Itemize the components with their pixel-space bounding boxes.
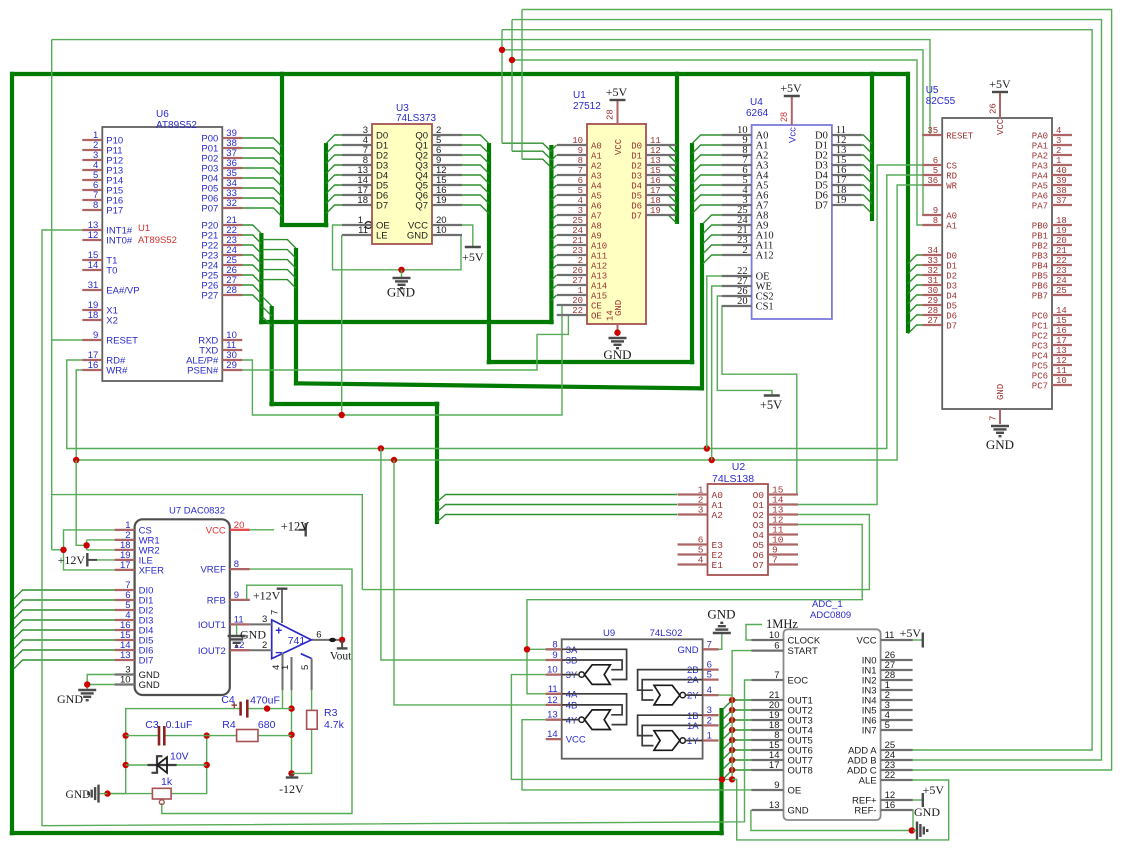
svg-text:13: 13 bbox=[650, 156, 661, 166]
wire to U6 RESET pin bbox=[52, 339, 83, 341]
wire DI4 bus entry bbox=[14, 630, 115, 639]
svg-text:14: 14 bbox=[1056, 306, 1067, 316]
svg-text:1: 1 bbox=[578, 286, 583, 296]
nor gate 1 bbox=[654, 731, 680, 751]
U1 pin 5 A5 bbox=[557, 194, 587, 196]
U4 pin 25 A8 bbox=[722, 214, 752, 216]
U3 OE/GND ground loop bbox=[333, 225, 463, 270]
data bus: U5 D drop x=908 bbox=[906, 72, 910, 333]
op-amp pins 4 1 5 stubs down bbox=[282, 653, 284, 691]
U7 pin 7 DI0 bbox=[115, 589, 135, 591]
svg-text:10V: 10V bbox=[170, 751, 189, 763]
+5V symbol U4 bbox=[784, 95, 800, 97]
Vout terminal bbox=[341, 640, 343, 649]
svg-text:24: 24 bbox=[1056, 276, 1067, 286]
svg-text:Q7: Q7 bbox=[415, 201, 428, 212]
wire Q7 bus entry bbox=[462, 205, 489, 214]
address bus A8-A12: slanted horizontal bbox=[294, 383, 704, 388]
U3 pin 15 Q5 bbox=[432, 184, 462, 186]
svg-text:13: 13 bbox=[547, 710, 558, 721]
wire P25 bus entry bbox=[242, 275, 261, 284]
U1 pin 7 A3 bbox=[557, 174, 587, 176]
U9 pin 11 4A bbox=[546, 693, 562, 695]
U3 pin 7 D2 bbox=[342, 154, 372, 156]
+12V symbol op-amp pin7 bbox=[277, 588, 288, 590]
U4 pin 7 A3 bbox=[722, 164, 752, 166]
U5 pin 5 RD bbox=[922, 174, 942, 176]
svg-text:A9: A9 bbox=[591, 232, 602, 242]
svg-text:PB0: PB0 bbox=[1032, 222, 1048, 232]
svg-text:74LS373: 74LS373 bbox=[396, 113, 436, 124]
WR#/rail2 y=460 bbox=[76, 185, 922, 460]
ADC1 pin 14 OUT7 bbox=[752, 759, 784, 761]
svg-text:6: 6 bbox=[316, 630, 321, 641]
svg-text:14: 14 bbox=[547, 729, 558, 740]
svg-text:OE: OE bbox=[788, 786, 802, 797]
svg-text:4B: 4B bbox=[566, 701, 578, 712]
svg-text:D3: D3 bbox=[946, 282, 957, 292]
svg-text:17: 17 bbox=[769, 760, 780, 771]
U6 pin 3 P12 bbox=[82, 159, 102, 161]
wire R4 right bbox=[258, 735, 292, 737]
junction OUT1 bbox=[729, 697, 735, 703]
junction U1 ground bbox=[614, 329, 620, 335]
svg-text:PA7: PA7 bbox=[1032, 202, 1048, 212]
U4 OE wire down to rail1 bbox=[707, 276, 722, 449]
wire A2 jog to bus bbox=[522, 159, 551, 168]
ADC REF+ to +5V bbox=[911, 799, 923, 801]
ADC1 pin 8 OUT5 bbox=[752, 739, 784, 741]
U1 pin 16 D4 bbox=[646, 184, 676, 186]
U7 pin 8 VREF bbox=[230, 568, 250, 570]
svg-text:+5V: +5V bbox=[462, 250, 484, 264]
svg-text:RFB: RFB bbox=[207, 596, 226, 607]
svg-text:R4: R4 bbox=[222, 719, 236, 731]
wire rail2 to U9 4B bbox=[394, 460, 546, 705]
svg-text:74LS138: 74LS138 bbox=[712, 473, 754, 485]
svg-text:GND: GND bbox=[986, 437, 1014, 452]
wire OUT1 bus entry bbox=[724, 700, 752, 709]
wire Q1 bus entry bbox=[462, 145, 489, 154]
address bus A0-A2: horizontal y=404 bbox=[269, 402, 439, 406]
svg-text:31: 31 bbox=[927, 276, 938, 286]
wire U1 A7 bus entry bbox=[551, 215, 556, 220]
wire rail1 to U9 3B bbox=[381, 449, 546, 661]
junction DAC GND bbox=[84, 681, 90, 687]
wire DI1 bus entry bbox=[14, 600, 115, 609]
U4 pin 4 A6 bbox=[722, 194, 752, 196]
ground symbol U1 bbox=[609, 338, 627, 348]
U6 pin 26 P25 bbox=[222, 274, 242, 276]
3Y to START/ALE bbox=[511, 675, 732, 780]
svg-text:A4: A4 bbox=[591, 182, 602, 192]
svg-text:8: 8 bbox=[933, 216, 938, 226]
svg-text:A12: A12 bbox=[591, 262, 607, 272]
svg-text:IN7: IN7 bbox=[862, 726, 877, 737]
address bus A8-A15: U1 riser x=551.4 bbox=[549, 145, 553, 324]
U3 pin 11 LE bbox=[342, 234, 372, 236]
wire U4 A12 bus entry bbox=[703, 255, 722, 264]
wire OUT2 bus entry bbox=[724, 710, 752, 719]
U4 pin 5 A5 bbox=[722, 184, 752, 186]
U5 pin 4 PA0 bbox=[1052, 134, 1072, 136]
U6 pin 36 P03 bbox=[222, 167, 242, 169]
wire U4 A9 bus entry bbox=[703, 225, 722, 234]
U9 pin 1 1Y bbox=[703, 739, 719, 741]
ADC1 pin 3 IN5 bbox=[881, 709, 913, 711]
wire U5 D0 bus entry bbox=[908, 255, 922, 264]
U5 pin 32 D2 bbox=[922, 274, 942, 276]
U1 pin 11 D0 bbox=[646, 144, 676, 146]
svg-text:GND: GND bbox=[139, 680, 160, 691]
wire U1 A8 bus entry bbox=[551, 225, 556, 230]
U4 WE wire down to rail2 bbox=[712, 286, 722, 460]
svg-text:4: 4 bbox=[578, 196, 583, 206]
U6 pin 13 INT1# bbox=[82, 229, 102, 231]
U6 pin 19 X1 bbox=[82, 309, 102, 311]
junction C4/pin1 bbox=[288, 705, 294, 711]
ADC CLOCK to 1MHz stub bbox=[746, 625, 762, 641]
wire U1 D1 bus entry bbox=[668, 155, 677, 164]
U5 pin 25 PB7 bbox=[1052, 294, 1072, 296]
+12V symbol DAC ILE bbox=[86, 553, 88, 567]
svg-text:GND: GND bbox=[707, 607, 735, 622]
address bus A8-A15: P2 drop x=261.4 bbox=[259, 233, 263, 324]
wire DI5 bus entry bbox=[14, 640, 115, 649]
wire U1 A5 bus entry bbox=[551, 195, 556, 200]
U6 pin 18 X2 bbox=[82, 319, 102, 321]
svg-text:GND: GND bbox=[996, 384, 1006, 400]
U3 pin 8 D3 bbox=[342, 164, 372, 166]
U6 pin 28 P27 bbox=[222, 294, 242, 296]
ground bbox=[88, 785, 98, 803]
svg-text:13: 13 bbox=[1056, 346, 1067, 356]
svg-text:22: 22 bbox=[885, 770, 896, 781]
svg-text:-12V: -12V bbox=[279, 782, 304, 796]
svg-text:3: 3 bbox=[698, 505, 704, 516]
wire D4 U3 bus exit bbox=[326, 175, 342, 184]
svg-text:INT0#: INT0# bbox=[106, 236, 133, 247]
U5 pin 31 D3 bbox=[922, 284, 942, 286]
wire U4 D6 bus entry bbox=[862, 195, 872, 204]
svg-text:11: 11 bbox=[234, 614, 244, 625]
wire DI3 bus entry bbox=[14, 620, 115, 629]
ADC1 pin 11 VCC bbox=[881, 639, 913, 641]
svg-text:E1: E1 bbox=[712, 560, 724, 571]
svg-text:19: 19 bbox=[836, 195, 847, 206]
svg-text:A12: A12 bbox=[756, 251, 774, 262]
U1 pin 15 D3 bbox=[646, 174, 676, 176]
svg-text:PC0: PC0 bbox=[1032, 312, 1048, 322]
svg-text:5: 5 bbox=[578, 186, 583, 196]
U1 pin 17 D5 bbox=[646, 194, 676, 196]
U5 pin 17 PC3 bbox=[1052, 344, 1072, 346]
junction R4 left bbox=[204, 732, 210, 738]
op-amp U8 741 bbox=[272, 620, 312, 659]
op-amp pin3 wire from IOUT1 bbox=[250, 623, 272, 625]
svg-text:A11: A11 bbox=[591, 252, 607, 262]
ADC1 pin 23 ADD C bbox=[881, 769, 913, 771]
IC U5 body bbox=[942, 118, 1052, 409]
svg-text:LE: LE bbox=[376, 231, 388, 242]
wire op-amp pin6 bbox=[311, 639, 342, 641]
svg-text:CS: CS bbox=[946, 162, 957, 172]
wire OUT7 bus entry bbox=[724, 760, 752, 769]
svg-text:35: 35 bbox=[927, 126, 938, 136]
wire U4 D2 bus entry bbox=[862, 155, 872, 164]
U5 pin 24 PB6 bbox=[1052, 284, 1072, 286]
svg-text:4: 4 bbox=[707, 685, 712, 696]
junction rail1 to U4 OE bbox=[704, 445, 710, 451]
svg-text:16: 16 bbox=[1056, 326, 1067, 336]
svg-text:D7: D7 bbox=[631, 212, 642, 222]
wire 4Y out bbox=[562, 719, 579, 721]
svg-text:36: 36 bbox=[927, 176, 938, 186]
ADC GND pin13 to ground wire bbox=[751, 810, 913, 831]
wire pin4 down bbox=[282, 690, 284, 708]
junction OUT8 bbox=[729, 767, 735, 773]
wire U4 A6 bus entry bbox=[692, 195, 722, 204]
svg-text:GND: GND bbox=[240, 628, 266, 642]
C4 right wire bbox=[247, 708, 291, 710]
U6 pin 8 P17 bbox=[82, 209, 102, 211]
svg-text:PB2: PB2 bbox=[1032, 242, 1048, 252]
wire to gnd symbol bbox=[913, 830, 917, 832]
2Y wire to START column bbox=[719, 694, 733, 696]
svg-text:START: START bbox=[788, 646, 818, 657]
svg-text:10: 10 bbox=[120, 675, 131, 686]
svg-text:8: 8 bbox=[93, 200, 98, 211]
junction rail2 to U4 WE bbox=[709, 457, 715, 463]
svg-text:CLOCK: CLOCK bbox=[788, 636, 821, 647]
wire to 3A bbox=[527, 648, 546, 650]
IC ADC1 body bbox=[784, 629, 881, 820]
svg-text:5: 5 bbox=[933, 166, 938, 176]
svg-text:3Y: 3Y bbox=[566, 670, 578, 681]
svg-text:0.1uF: 0.1uF bbox=[166, 719, 193, 731]
wire U1 A3 bus entry bbox=[551, 175, 556, 180]
junction A1 fan bbox=[509, 57, 515, 63]
data bus: bottom horizontal bbox=[10, 831, 724, 835]
svg-text:R3: R3 bbox=[324, 707, 338, 719]
U5 pin 3 PA1 bbox=[1052, 144, 1072, 146]
svg-text:7: 7 bbox=[707, 639, 712, 650]
svg-text:+5V: +5V bbox=[760, 398, 782, 412]
svg-text:EOC: EOC bbox=[788, 676, 809, 687]
ADC1 pin 6 START bbox=[752, 649, 784, 651]
U3 pin 16 Q6 bbox=[432, 194, 462, 196]
ground symbol U5 bbox=[991, 426, 1009, 436]
address bus A0-A7: U4 riser x=692 bbox=[690, 143, 694, 364]
svg-text:7: 7 bbox=[989, 416, 999, 421]
U2 O2 wire to 3B chain bbox=[362, 515, 869, 590]
svg-text:D7: D7 bbox=[946, 322, 957, 332]
U1 pin 25 A8 bbox=[557, 224, 587, 226]
wire to WR1 bbox=[87, 539, 115, 541]
capacitor C4 470uF bbox=[239, 702, 242, 716]
U3 pin 19 Q7 bbox=[432, 204, 462, 206]
address bus A8-A15: horizontal y=322 bbox=[259, 320, 554, 324]
svg-text:28: 28 bbox=[927, 306, 938, 316]
wire 2A loop bbox=[642, 680, 702, 700]
svg-text:4.7k: 4.7k bbox=[324, 719, 345, 731]
U9 pin 12 4B bbox=[546, 704, 562, 706]
svg-text:8: 8 bbox=[234, 559, 239, 570]
wire op-amp pin5 lead bbox=[301, 654, 312, 659]
svg-text:10: 10 bbox=[769, 630, 780, 641]
U5 pin 36 WR bbox=[922, 184, 942, 186]
wire U1 D2 bus entry bbox=[668, 165, 677, 174]
ADC1 pin 27 IN1 bbox=[881, 669, 913, 671]
address bus A0-A7: U3 Q drop x=489 bbox=[487, 143, 491, 364]
U4 pin 3 A7 bbox=[722, 204, 752, 206]
svg-text:17: 17 bbox=[650, 186, 661, 196]
wire U1 A10 bus entry bbox=[551, 245, 556, 250]
ADC1 pin 20 OUT2 bbox=[752, 709, 784, 711]
svg-text:D0: D0 bbox=[946, 252, 957, 262]
nor gate 4 bbox=[585, 710, 611, 730]
svg-text:2: 2 bbox=[1056, 146, 1061, 156]
+5V symbol near U4 CS2 bbox=[764, 394, 780, 396]
fan line A0 to U5 A0 bbox=[502, 50, 923, 215]
svg-text:40: 40 bbox=[1056, 166, 1067, 176]
svg-text:37: 37 bbox=[1056, 196, 1067, 206]
U3 pin 13 D4 bbox=[342, 174, 372, 176]
ADC1 pin 25 ADD A bbox=[881, 749, 913, 751]
wire jog A11 to U4 bus bbox=[261, 270, 296, 279]
U1 pin 10 A0 bbox=[557, 144, 587, 146]
junction diode left bbox=[123, 762, 129, 768]
svg-text:16: 16 bbox=[88, 360, 99, 371]
svg-text:16: 16 bbox=[885, 800, 896, 811]
svg-text:D5: D5 bbox=[946, 302, 957, 312]
op-amp pin2 wire from IOUT2 bbox=[250, 649, 272, 651]
wire jog A1 to U2 bus bbox=[261, 307, 271, 316]
resistor R3 4.7k bbox=[307, 710, 318, 729]
svg-text:12: 12 bbox=[547, 695, 558, 706]
wire U4 A8 bus entry bbox=[703, 215, 722, 224]
nor gate 3 bbox=[585, 665, 611, 685]
U1 pin 13 D2 bbox=[646, 164, 676, 166]
DAC VREF wire to wiper bbox=[162, 569, 352, 813]
U1 pin 27 A14 bbox=[557, 284, 587, 286]
U1 pin 1 A15 bbox=[557, 294, 587, 296]
wire to pot right bbox=[171, 765, 207, 794]
ADC1 pin 17 OUT8 bbox=[752, 769, 784, 771]
top fan: A1 line wrap to ADC ADD B bbox=[512, 20, 1102, 760]
wire WR1-WR2 tie bbox=[86, 540, 88, 550]
IC U9 body bbox=[562, 639, 703, 758]
junction rail1 to U9 3B bbox=[378, 445, 384, 451]
svg-text:PC7: PC7 bbox=[1032, 382, 1048, 392]
U5 GND pin 7 bottom bbox=[999, 409, 1001, 424]
U5 pin 15 PC1 bbox=[1052, 324, 1072, 326]
svg-text:28: 28 bbox=[779, 112, 789, 122]
U2 pin 5 E2 bbox=[678, 553, 708, 555]
svg-text:12: 12 bbox=[650, 146, 661, 156]
svg-text:5: 5 bbox=[707, 670, 712, 681]
U6 pin 29 PSEN# bbox=[222, 369, 242, 371]
U6 pin 2 P11 bbox=[82, 149, 102, 151]
svg-text:23: 23 bbox=[572, 246, 583, 256]
junction OUT6 bbox=[729, 747, 735, 753]
U4 pin 2 A12 bbox=[722, 254, 752, 256]
svg-text:U7 DAC0832: U7 DAC0832 bbox=[169, 506, 225, 517]
svg-text:22: 22 bbox=[1056, 256, 1067, 266]
wire U1 A6 bus entry bbox=[551, 205, 556, 210]
svg-text:13: 13 bbox=[120, 650, 131, 661]
svg-text:ADC_1: ADC_1 bbox=[812, 599, 843, 610]
ADC1 pin 24 ADD B bbox=[881, 759, 913, 761]
U4 pin 21 A10 bbox=[722, 234, 752, 236]
svg-text:1MHz: 1MHz bbox=[766, 617, 798, 631]
svg-text:11: 11 bbox=[1056, 366, 1067, 376]
wire Q0 bus entry bbox=[462, 135, 489, 144]
U5 pin 8 A1 bbox=[922, 224, 942, 226]
-12V symbol bbox=[286, 776, 299, 778]
wire U4 A11 bus entry bbox=[703, 245, 722, 254]
U6 pin 22 P21 bbox=[222, 234, 242, 236]
wire diode to pot gnd bbox=[108, 765, 126, 794]
wire A0 vertical x=502 bbox=[501, 30, 503, 144]
U5 pin 28 D6 bbox=[922, 314, 942, 316]
svg-text:PA0: PA0 bbox=[1032, 132, 1048, 142]
U4 pin 24 A9 bbox=[722, 224, 752, 226]
ADC1 pin 2 IN4 bbox=[881, 699, 913, 701]
svg-text:4Y: 4Y bbox=[566, 715, 578, 726]
U1 pin 2 A12 bbox=[557, 264, 587, 266]
svg-text:PC3: PC3 bbox=[1032, 342, 1048, 352]
svg-text:26: 26 bbox=[572, 266, 583, 276]
wire A2 vertical x=522 bbox=[521, 10, 523, 160]
svg-text:OE: OE bbox=[591, 312, 602, 322]
U5 pin 14 PC0 bbox=[1052, 314, 1072, 316]
svg-text:18: 18 bbox=[357, 195, 368, 206]
svg-text:GND: GND bbox=[603, 347, 631, 362]
svg-text:2: 2 bbox=[742, 245, 747, 256]
U1 pin 20 CE bbox=[557, 304, 587, 306]
U5 pin 9 A0 bbox=[922, 214, 942, 216]
svg-text:22: 22 bbox=[572, 306, 583, 316]
wire P03 bus entry bbox=[242, 168, 282, 177]
U2 pin 15 O0 bbox=[768, 493, 798, 495]
wire D6 U3 bus exit bbox=[326, 195, 342, 204]
svg-text:A5: A5 bbox=[591, 192, 602, 202]
svg-text:9: 9 bbox=[234, 590, 239, 601]
wire Q3 bus entry bbox=[462, 165, 489, 174]
junction LE/ALE bbox=[339, 412, 345, 418]
U6 pin 21 P20 bbox=[222, 224, 242, 226]
svg-text:+12V: +12V bbox=[58, 553, 86, 567]
U4 pin 17 D5 bbox=[832, 184, 862, 186]
ADC1 pin 9 OE bbox=[752, 789, 784, 791]
wire 2B loop bbox=[638, 670, 703, 691]
svg-text:PC4: PC4 bbox=[1032, 352, 1048, 362]
svg-text:11: 11 bbox=[885, 630, 895, 641]
+5V symbol ADC REF+ bbox=[922, 793, 924, 807]
U6 pin 16 WR# bbox=[82, 369, 102, 371]
U4 pin 15 D3 bbox=[832, 164, 862, 166]
svg-text:P27: P27 bbox=[201, 291, 218, 302]
wire D1 U3 bus exit bbox=[326, 145, 342, 154]
wire OUT6 bus entry bbox=[724, 750, 752, 759]
svg-text:D5: D5 bbox=[631, 192, 642, 202]
U7 pin 19 ILE bbox=[115, 559, 135, 561]
junction OUT3 bbox=[729, 717, 735, 723]
U3 pin 3 D0 bbox=[342, 134, 372, 136]
U5 pin 13 PC4 bbox=[1052, 354, 1072, 356]
svg-text:PB4: PB4 bbox=[1032, 262, 1048, 272]
